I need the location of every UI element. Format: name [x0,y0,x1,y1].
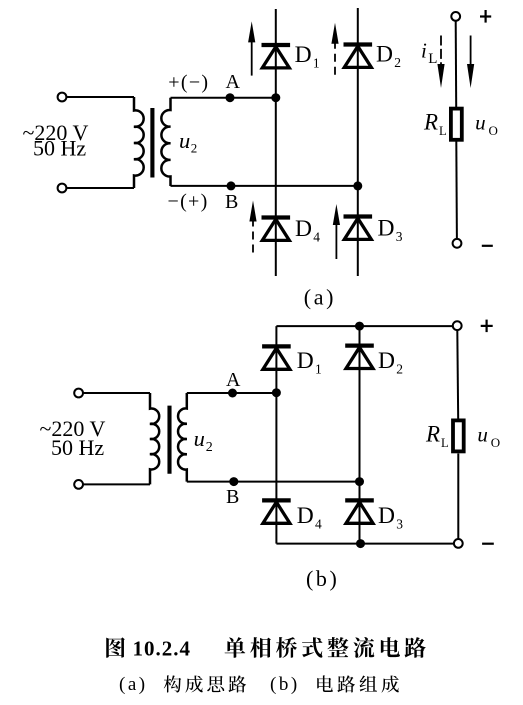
diode D3 [344,217,373,240]
svg-text:D: D [297,348,314,374]
load current arrow dashed down (a) [437,36,444,89]
svg-text:R: R [425,422,440,447]
diode D3 [345,500,374,523]
caption line 1 [106,637,426,661]
label D4 [297,503,322,531]
diode D2 [345,346,374,369]
wire node A to bridge (a) [171,97,277,99]
junction dot bottom rail (b) [356,539,365,548]
label iL (a) [421,39,437,67]
diode D4 [262,500,291,523]
svg-text:u: u [194,426,205,451]
svg-text:A: A [226,369,241,391]
label RL (a) [423,109,447,138]
resistor RL (a) [451,109,462,140]
svg-text:i: i [421,39,427,63]
transformer primary winding (a) [134,97,144,188]
svg-text:(b): (b) [306,566,339,591]
label plus (b) [481,320,493,333]
svg-text:(a): (a) [119,674,148,695]
diode D4 [262,218,291,241]
label D3 [378,216,403,244]
left branch wire (a) [275,9,277,276]
wire primary top (a) [66,96,134,98]
terminal top-left (a) [58,93,67,102]
svg-text:A: A [226,71,241,93]
right branch wire (a) [357,8,359,276]
label D2 [378,348,403,376]
wire load bottom (a) [455,142,458,239]
svg-text:2: 2 [396,361,403,376]
svg-text:B: B [226,486,239,508]
terminal minus (a) [453,239,462,248]
label u2 (b) [194,426,213,455]
svg-text:D: D [378,348,395,374]
wire load top (b) [456,330,459,420]
node B dot (a) [227,181,236,190]
current arrow solid up at D1 (a) [248,21,255,75]
svg-text:3: 3 [396,516,403,531]
wire node A to bridge (b) [187,392,277,394]
terminal top-left (b) [74,389,83,398]
transformer secondary winding u2 (a) [161,98,170,186]
svg-text:D: D [378,503,395,529]
svg-text:D: D [378,216,395,242]
transformer core (b) [167,406,171,474]
wire node B to bridge (b) [187,481,360,483]
wire primary bottom (b) [83,483,150,485]
node B dot (b) [229,477,238,486]
junction dot top rail (b) [355,322,364,331]
label D3 [378,503,403,531]
terminal plus (a) [451,12,460,21]
current arrow solid up at D3 (a) [333,204,340,259]
top rail wire (b) [276,325,457,327]
label D2 [376,42,401,70]
svg-text:1: 1 [315,361,322,376]
load current arrow solid down (a) [467,36,474,89]
node A dot (a) [226,93,235,102]
junction dot B on right branch (a) [353,181,362,190]
svg-text:D: D [376,42,393,68]
wire node B to bridge (a) [171,185,358,187]
label 220V 50Hz (a) [23,120,89,161]
label uO (b) [477,423,500,451]
svg-text:L: L [439,124,447,138]
svg-text:O: O [491,435,500,450]
label uO (a) [475,110,498,138]
svg-text:2: 2 [206,440,213,455]
junction dot B on right branch (b) [355,477,364,486]
svg-text:(a): (a) [304,284,336,309]
svg-text:50 Hz: 50 Hz [33,136,86,161]
svg-text:D: D [295,216,312,242]
svg-text:2: 2 [191,141,198,156]
left bridge branch wire (b) [275,326,277,543]
label minus (a) [482,245,493,247]
svg-text:B: B [225,191,238,213]
transformer core (a) [150,108,154,178]
svg-text:D: D [295,42,312,68]
diode D1 [262,346,291,369]
label 220V 50Hz (b) [40,416,106,460]
wire load top (a) [455,21,458,107]
svg-text:L: L [441,436,449,450]
label D1 [295,42,320,70]
svg-text:u: u [179,128,190,153]
svg-text:R: R [423,109,438,134]
svg-text:1: 1 [313,55,320,70]
diode D1 [262,45,291,68]
terminal bottom-left (b) [74,480,83,489]
svg-text:4: 4 [315,516,322,531]
svg-text:u: u [475,110,486,134]
transformer primary winding (b) [150,393,159,484]
terminal minus (b) [454,539,463,548]
svg-text:3: 3 [396,229,403,244]
svg-text:(b): (b) [270,674,300,695]
label D4 [295,216,320,244]
svg-text:2: 2 [394,55,401,70]
junction dot A on left branch (a) [271,93,280,102]
svg-text:u: u [477,423,488,447]
terminal plus (b) [453,321,462,330]
svg-text:−(+): −(+) [168,191,209,213]
label minus (b) [482,543,494,545]
label D1 [297,348,322,376]
wire load bottom (b) [457,454,459,540]
junction dot A on left branch (b) [272,388,281,397]
caption line 2 [119,674,399,695]
label u2 (a) [179,128,197,156]
right bridge branch wire (b) [359,326,361,543]
label RL (b) [425,422,449,451]
svg-text:D: D [297,503,314,529]
current arrow dashed up at D2 (a) [331,23,338,77]
svg-text:L: L [428,51,437,67]
svg-text:10.2.4: 10.2.4 [133,637,192,661]
terminal bottom-left (a) [58,184,67,193]
bottom rail wire (b) [276,543,458,545]
wire primary top (b) [83,392,150,394]
current arrow dashed up at D4 (a) [249,201,256,254]
diode D2 [344,45,373,68]
wire primary bottom (a) [66,187,134,189]
svg-text:50 Hz: 50 Hz [51,435,104,460]
svg-text:+(−): +(−) [168,72,209,94]
node A dot (b) [228,389,237,398]
resistor RL (b) [453,420,464,451]
svg-text:O: O [489,123,498,138]
transformer secondary winding u2 (b) [178,393,187,482]
label plus (a) [480,10,491,23]
svg-text:4: 4 [313,229,320,244]
